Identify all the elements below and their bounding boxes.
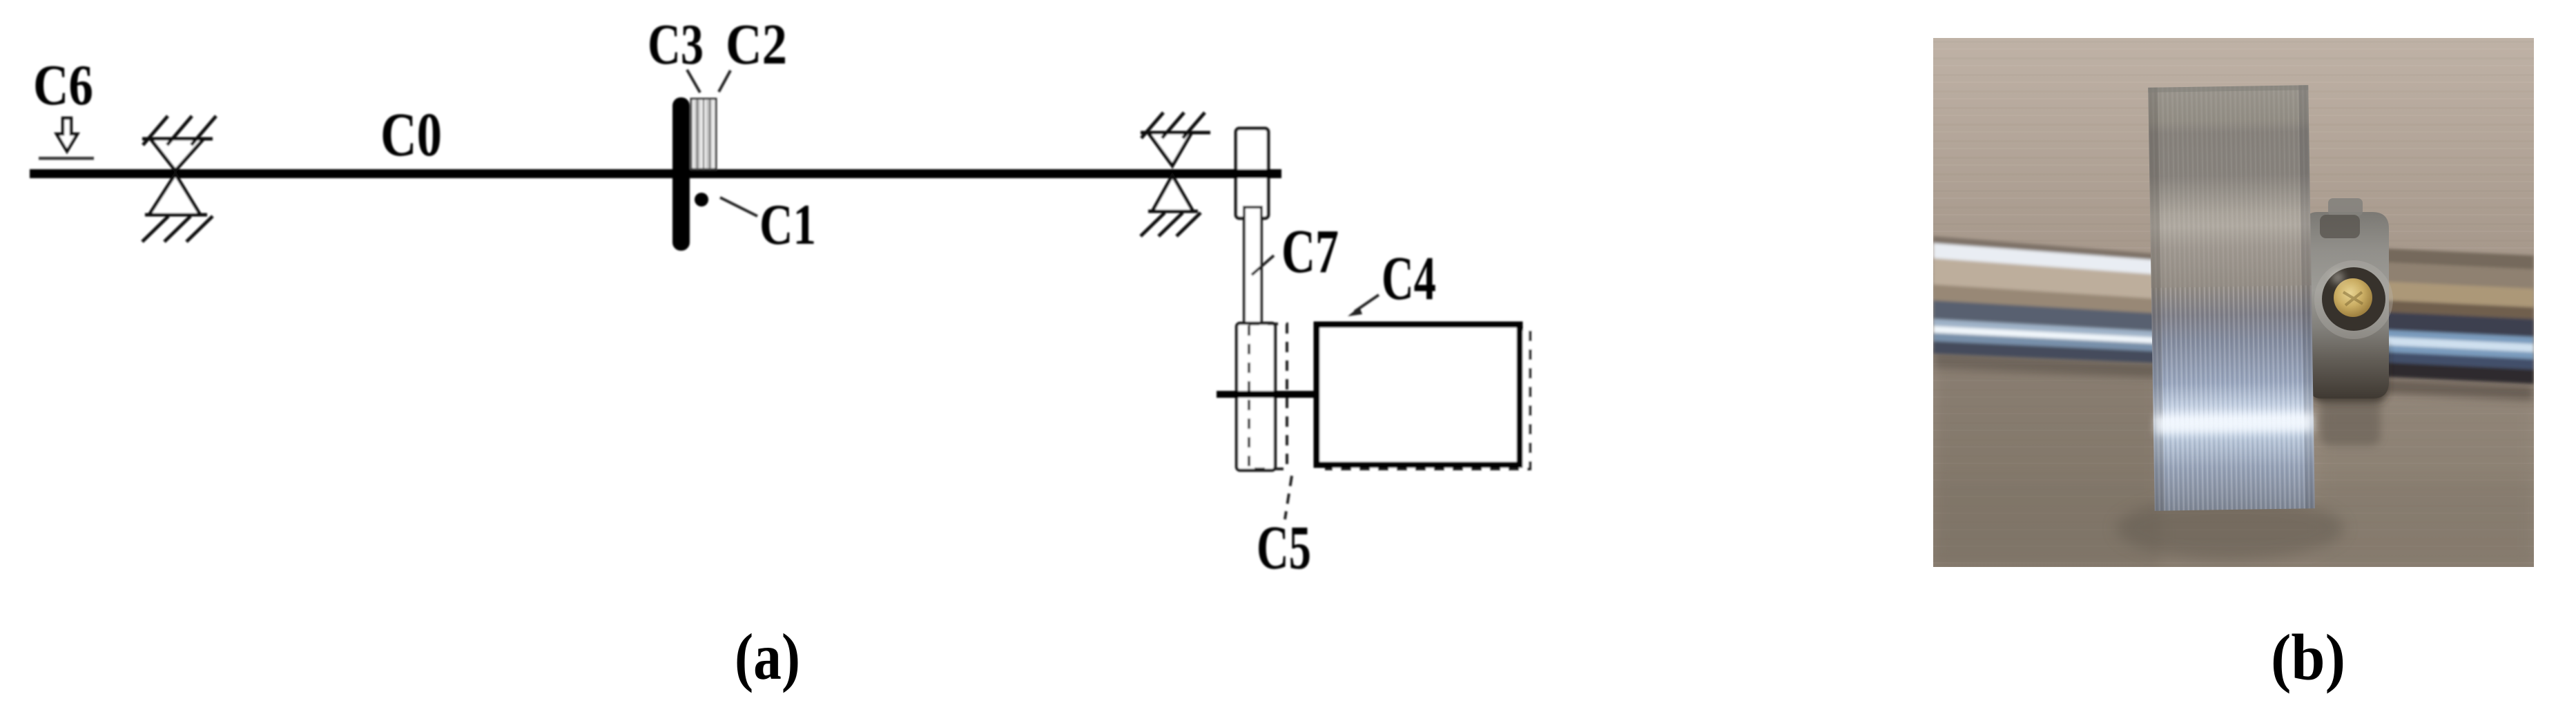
svg-text:(a): (a) xyxy=(735,620,800,693)
svg-text:C0: C0 xyxy=(380,101,442,169)
svg-text:C4: C4 xyxy=(1382,244,1436,313)
svg-text:C5: C5 xyxy=(1257,514,1311,582)
svg-text:C1: C1 xyxy=(759,193,816,257)
svg-text:C3: C3 xyxy=(648,12,704,77)
svg-text:C7: C7 xyxy=(1281,218,1339,286)
svg-text:C2: C2 xyxy=(726,12,787,77)
svg-text:C6: C6 xyxy=(33,53,93,117)
svg-text:(b): (b) xyxy=(2271,621,2345,694)
